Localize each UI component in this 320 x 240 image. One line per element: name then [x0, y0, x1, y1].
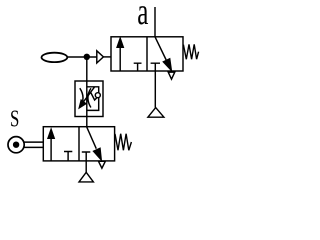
node junction dot — [84, 54, 90, 60]
valve S body — [43, 127, 114, 161]
valve a right box blocked port T — [151, 63, 160, 71]
flow control check valve seat — [91, 92, 100, 100]
wire: valve S port 1 down — [85, 161, 87, 172]
flow control adjust arrow — [83, 87, 95, 103]
wire: ellipse to pilot head — [68, 56, 97, 58]
flow control bypass loop — [87, 87, 99, 111]
compressed air supply (valve a) — [148, 108, 164, 118]
valve a divider — [146, 37, 148, 71]
flow control throttle arcs — [80, 88, 83, 107]
pilot arrowhead (valve a pilot) — [97, 51, 104, 63]
wire: valve a port 1 down — [154, 71, 156, 108]
valve a left box flow arrow — [119, 47, 121, 72]
plunger lower line — [24, 146, 43, 148]
flow control check valve ball — [95, 93, 100, 98]
valve a body — [111, 37, 183, 71]
exhaust (valve a port 3) — [168, 72, 175, 79]
valve S left box blocked port T — [64, 152, 72, 161]
valve a left box blocked port T — [134, 63, 142, 71]
valve S left box flow arrow — [50, 138, 52, 161]
pilot signal ellipse — [42, 53, 68, 62]
valve S right box blocked port T — [82, 152, 91, 161]
wire: pilot head to valve a — [103, 56, 111, 58]
valve S return spring — [115, 134, 131, 151]
compressed air supply (valve S) — [79, 172, 93, 182]
valve S divider — [78, 127, 80, 161]
roller actuator circle — [8, 137, 24, 153]
valve S right box flow arrow 2-3 — [87, 127, 97, 149]
flow control valve outer box — [75, 81, 103, 117]
wire: port a line — [154, 7, 156, 37]
plunger upper line — [24, 141, 43, 143]
valve a right box flow arrow 2-3 — [155, 37, 166, 60]
svg-text:S: S — [10, 107, 19, 132]
wire: junction down through flow control to valve S — [86, 57, 88, 127]
roller center dot — [13, 142, 19, 148]
valve a return spring — [183, 44, 198, 59]
exhaust (valve S port 3) — [99, 161, 106, 168]
svg-text:a: a — [137, 0, 148, 32]
